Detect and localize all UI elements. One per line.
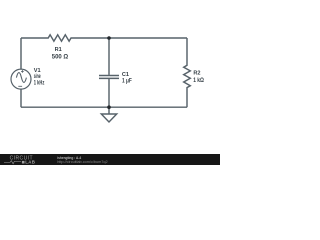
svg-text:LAB: LAB bbox=[25, 160, 35, 165]
svg-text:500 Ω: 500 Ω bbox=[52, 54, 69, 60]
svg-text:sine: sine bbox=[34, 74, 41, 80]
svg-text:R1: R1 bbox=[55, 47, 62, 53]
svg-text:1 μF: 1 μF bbox=[122, 78, 132, 84]
svg-text:1 kΩ: 1 kΩ bbox=[193, 78, 204, 84]
svg-text:http://circuitlab.com/c/bum7q2: http://circuitlab.com/c/bum7q2 bbox=[57, 160, 107, 164]
svg-text:C1: C1 bbox=[122, 72, 129, 78]
svg-text:1 kHz: 1 kHz bbox=[34, 80, 45, 86]
svg-text:R2: R2 bbox=[193, 71, 200, 77]
